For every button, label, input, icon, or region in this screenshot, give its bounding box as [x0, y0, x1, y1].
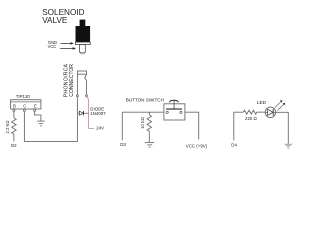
- svg-text:2.2 KΩ: 2.2 KΩ: [5, 121, 10, 134]
- svg-text:10 KΩ: 10 KΩ: [140, 117, 145, 129]
- svg-text:1N4007: 1N4007: [90, 111, 106, 116]
- svg-text:VCC (+9V): VCC (+9V): [186, 143, 208, 148]
- svg-text:B: B: [13, 104, 16, 109]
- svg-text:LED: LED: [257, 100, 267, 106]
- svg-text:CONNECTOR: CONNECTOR: [69, 64, 75, 97]
- svg-text:VCC: VCC: [48, 44, 57, 49]
- svg-text:VALVE: VALVE: [42, 16, 68, 25]
- svg-text:24V: 24V: [96, 125, 104, 130]
- svg-text:C: C: [23, 104, 26, 109]
- svg-text:D4: D4: [231, 142, 237, 147]
- svg-text:BUTTON SWITCH: BUTTON SWITCH: [126, 97, 164, 102]
- svg-text:D3: D3: [120, 142, 126, 147]
- svg-text:D2: D2: [11, 143, 17, 148]
- svg-text:220 Ω: 220 Ω: [245, 116, 258, 121]
- svg-text:TIP120: TIP120: [16, 94, 31, 99]
- svg-text:E: E: [34, 104, 37, 109]
